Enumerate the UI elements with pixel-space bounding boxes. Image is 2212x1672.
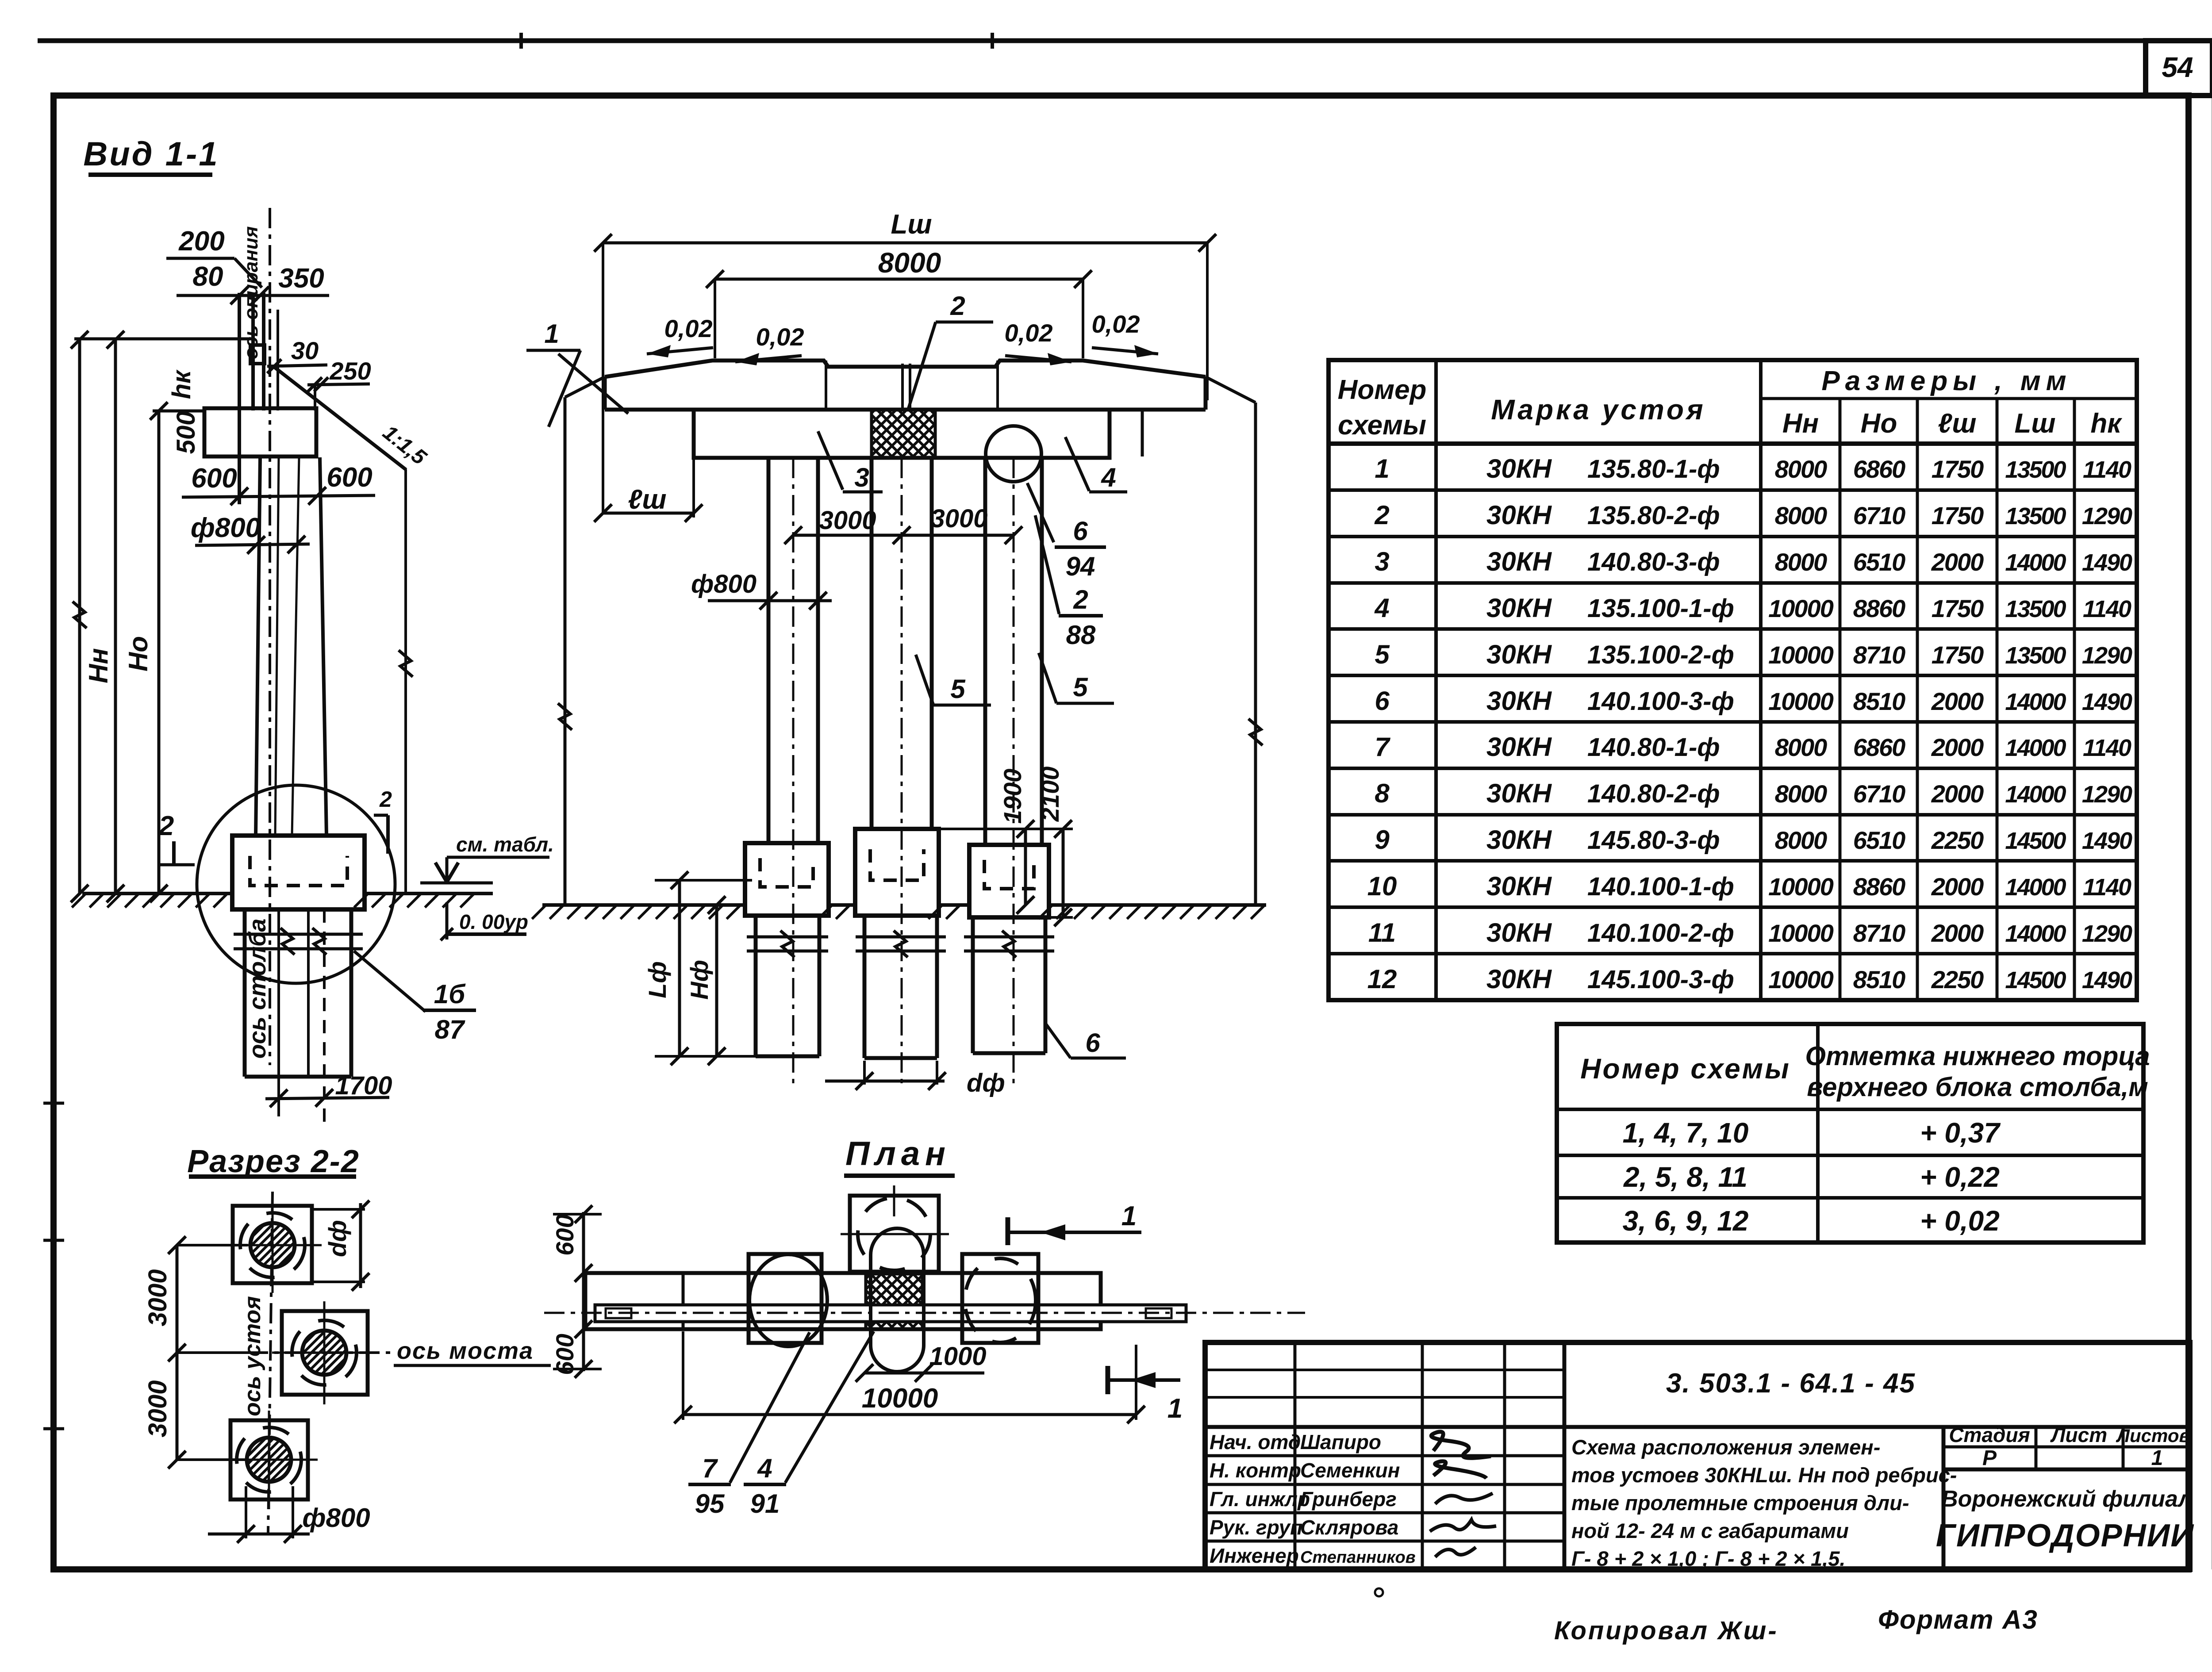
svg-text:2000: 2000: [1931, 873, 1984, 901]
svg-text:140.100-3-ф: 140.100-3-ф: [1587, 687, 1734, 716]
abutment axis (ось устоя): [240, 1192, 273, 1533]
svg-text:10: 10: [1367, 871, 1397, 901]
svg-text:94: 94: [1066, 552, 1095, 581]
svg-text:145.80-3-ф: 145.80-3-ф: [1587, 826, 1720, 855]
svg-text:схемы: схемы: [1338, 410, 1426, 441]
svg-text:600: 600: [551, 1334, 579, 1375]
svg-text:3, 6, 9, 12: 3, 6, 9, 12: [1623, 1205, 1749, 1237]
section mark 1 bottom: [1108, 1366, 1183, 1424]
svg-text:140.80-3-ф: 140.80-3-ф: [1587, 548, 1720, 576]
ground line (view 1-1): [72, 894, 493, 908]
svg-text:1290: 1290: [2082, 920, 2132, 947]
svg-text:30КН: 30КН: [1486, 964, 1552, 994]
svg-text:10000: 10000: [1768, 687, 1834, 715]
svg-text:14000: 14000: [2005, 781, 2066, 808]
svg-text:14500: 14500: [2005, 828, 2066, 854]
svg-text:6860: 6860: [1853, 455, 1905, 483]
shelf slab outline: [605, 360, 1206, 456]
svg-text:1700: 1700: [335, 1071, 392, 1100]
svg-text:2250: 2250: [1931, 966, 1984, 993]
svg-text:7: 7: [702, 1453, 718, 1483]
section mark 2 lower: [374, 787, 392, 854]
svg-text:2, 5, 8, 11: 2, 5, 8, 11: [1623, 1161, 1747, 1193]
piles (elevation): [747, 916, 1054, 1058]
svg-text:80: 80: [193, 261, 223, 292]
detail callout 1b/87: [354, 951, 476, 1044]
svg-text:5: 5: [1073, 672, 1088, 702]
svg-text:4: 4: [757, 1453, 772, 1483]
svg-text:8000: 8000: [1775, 455, 1827, 483]
svg-text:Н. контр: Н. контр: [1210, 1459, 1301, 1482]
svg-text:Гринберг: Гринберг: [1300, 1488, 1397, 1511]
dimension 3000 3000 (elevation): [784, 504, 1022, 544]
svg-text:Нн: Нн: [1782, 408, 1819, 439]
svg-text:8710: 8710: [1853, 641, 1905, 669]
svg-text:8510: 8510: [1853, 966, 1905, 993]
svg-text:6710: 6710: [1853, 502, 1905, 529]
svg-text:600: 600: [191, 463, 237, 494]
svg-text:2: 2: [950, 291, 965, 321]
svg-text:Семенкин: Семенкин: [1300, 1459, 1400, 1482]
svg-text:Гл. инжлр: Гл. инжлр: [1210, 1488, 1310, 1511]
expansion joint crosshatch: [872, 410, 935, 458]
svg-text:Нач. отд: Нач. отд: [1210, 1430, 1301, 1453]
svg-text:8: 8: [1375, 778, 1390, 808]
svg-text:Г- 8 + 2 × 1,0 ; Г- 8 + 2 × 1: Г- 8 + 2 × 1,0 ; Г- 8 + 2 × 1,5.: [1571, 1547, 1845, 1570]
svg-text:2: 2: [1374, 500, 1389, 530]
title block: [1205, 1342, 2194, 1570]
svg-text:14000: 14000: [2005, 735, 2066, 761]
svg-text:Нф: Нф: [685, 960, 713, 1000]
svg-text:ось моста: ось моста: [397, 1338, 534, 1364]
svg-text:10000: 10000: [1768, 641, 1834, 669]
svg-text:Рук. груп: Рук. груп: [1210, 1516, 1302, 1539]
cap block on column: [204, 408, 316, 456]
svg-text:30КН: 30КН: [1486, 500, 1552, 530]
embankment outline right: [1206, 377, 1263, 905]
dimension 600 600 (plan): [551, 1205, 602, 1378]
svg-text:Шапиро: Шапиро: [1300, 1430, 1381, 1453]
dimensions Lf Hf: [643, 871, 761, 1065]
svg-text:8000: 8000: [1775, 826, 1827, 854]
svg-text:30КН: 30КН: [1486, 778, 1552, 808]
svg-text:+ 0,22: + 0,22: [1920, 1161, 2000, 1193]
svg-text:30КН: 30КН: [1486, 686, 1552, 716]
slope labels 0.02: [647, 310, 1158, 365]
foundation blocks: [745, 829, 1049, 917]
svg-text:0,02: 0,02: [1005, 319, 1053, 347]
pile cap A (section 2-2): [223, 1196, 322, 1293]
svg-text:Нн: Нн: [84, 648, 113, 683]
slope line 1:1.5: [274, 367, 431, 470]
svg-text:0,02: 0,02: [756, 323, 804, 351]
svg-text:6710: 6710: [1853, 780, 1905, 808]
svg-text:600: 600: [551, 1214, 579, 1255]
svg-text:2000: 2000: [1931, 733, 1984, 761]
bearing detail circle: [986, 426, 1041, 482]
callout 4: [1065, 437, 1127, 492]
svg-text:8000: 8000: [1775, 548, 1827, 576]
dimension lsh (left): [594, 458, 703, 522]
svg-text:Но: Но: [123, 636, 153, 671]
svg-text:Воронежский филиал: Воронежский филиал: [1941, 1486, 2193, 1512]
pile cap B (section 2-2): [272, 1301, 377, 1404]
svg-text:250: 250: [329, 357, 371, 385]
svg-text:Lш: Lш: [891, 209, 932, 240]
callout 2/88: [1035, 515, 1103, 650]
svg-text:1140: 1140: [2083, 874, 2131, 901]
svg-text:30: 30: [291, 337, 319, 364]
svg-text:1900: 1900: [998, 769, 1026, 824]
svg-text:Р: Р: [1982, 1446, 1997, 1470]
svg-text:200: 200: [178, 226, 224, 257]
dimension 1000 (plan): [856, 1342, 987, 1382]
svg-text:ф800: ф800: [691, 570, 757, 598]
svg-text:14000: 14000: [2005, 549, 2066, 576]
dimension 8000: [706, 247, 1092, 358]
dimensions 80 and 350: [177, 261, 329, 304]
svg-text:1490: 1490: [2082, 828, 2132, 854]
svg-text:План: План: [845, 1135, 951, 1173]
svg-text:верхнего блока столба,м: верхнего блока столба,м: [1807, 1072, 2148, 1102]
pile cap C (section 2-2): [221, 1411, 318, 1509]
svg-text:30КН: 30КН: [1486, 871, 1552, 901]
svg-text:Стадия: Стадия: [1949, 1423, 2030, 1446]
dimension 10000 (plan): [674, 1331, 1145, 1423]
svg-text:ось столба: ось столба: [244, 919, 271, 1059]
svg-text:30КН: 30КН: [1486, 593, 1552, 623]
svg-text:135.80-2-ф: 135.80-2-ф: [1587, 501, 1720, 530]
svg-text:ф800: ф800: [191, 513, 261, 543]
callout 7/95 (plan): [688, 1332, 810, 1519]
svg-text:13500: 13500: [2005, 596, 2066, 622]
svg-text:ГИПРОДОРНИИ: ГИПРОДОРНИИ: [1936, 1518, 2195, 1553]
footer notes: [1375, 1588, 2038, 1645]
svg-text:1490: 1490: [2082, 689, 2132, 715]
svg-text:1290: 1290: [2082, 781, 2132, 808]
svg-text:Отметка нижнего торца: Отметка нижнего торца: [1805, 1041, 2150, 1071]
svg-text:3. 503.1 - 64.1 - 45: 3. 503.1 - 64.1 - 45: [1666, 1368, 1916, 1399]
svg-text:2250: 2250: [1931, 826, 1984, 854]
svg-text:dф: dф: [967, 1069, 1005, 1097]
dimension 3000 3000 (section 2-2): [143, 1236, 248, 1469]
svg-text:14000: 14000: [2005, 874, 2066, 901]
dimensions 1900 2100: [939, 767, 1073, 926]
svg-text:6: 6: [1375, 686, 1390, 716]
dimension 200: [166, 226, 262, 288]
detail circle: [197, 785, 395, 983]
svg-text:30КН: 30КН: [1486, 547, 1552, 576]
svg-text:30КН: 30КН: [1486, 640, 1552, 669]
svg-text:dф: dф: [323, 1220, 351, 1257]
fold marks on left border: [43, 1103, 64, 1429]
plan: long plank strip: [595, 1305, 1186, 1322]
svg-text:8510: 8510: [1853, 687, 1905, 715]
svg-text:3000: 3000: [930, 504, 987, 533]
callout 6/94: [1027, 483, 1106, 581]
embankment outline left: [558, 377, 605, 905]
plan: right square block: [962, 1254, 1038, 1343]
svg-text:Схема расположения элемен-: Схема расположения элемен-: [1571, 1435, 1880, 1459]
svg-text:145.100-3-ф: 145.100-3-ф: [1587, 965, 1734, 994]
callout 2 (joint): [908, 291, 993, 410]
svg-text:0. 00ур: 0. 00ур: [459, 910, 528, 933]
signatures: [1431, 1432, 1491, 1458]
svg-text:5: 5: [950, 674, 966, 704]
svg-text:3000: 3000: [143, 1269, 172, 1326]
note see table: [420, 833, 554, 883]
svg-text:12: 12: [1367, 964, 1397, 994]
svg-text:6510: 6510: [1853, 826, 1905, 854]
svg-text:2100: 2100: [1036, 767, 1064, 822]
callout 4/91 (plan): [744, 1331, 874, 1519]
height dimension lines Hn Ho: [71, 331, 252, 902]
svg-text:135.100-1-ф: 135.100-1-ф: [1587, 594, 1734, 623]
svg-text:4: 4: [1101, 463, 1116, 492]
svg-text:Но: Но: [1861, 408, 1897, 439]
svg-text:8000: 8000: [1775, 733, 1827, 761]
svg-text:8000: 8000: [878, 247, 941, 279]
dimension f800 (elevation): [691, 570, 832, 610]
svg-text:ной 12- 24 м с габаритами: ной 12- 24 м с габаритами: [1571, 1519, 1849, 1542]
plan title: [844, 1135, 955, 1176]
svg-text:5: 5: [1375, 640, 1390, 669]
plan: left square block: [749, 1254, 827, 1346]
bridge axis (ось моста): [248, 1338, 551, 1365]
abutment column shaft: [256, 457, 326, 836]
svg-text:140.100-1-ф: 140.100-1-ф: [1587, 872, 1734, 901]
plan: back square block: [841, 1185, 949, 1272]
svg-text:2000: 2000: [1931, 548, 1984, 576]
plan: shelf wall band: [585, 1273, 1101, 1329]
svg-text:91: 91: [750, 1489, 780, 1519]
right slope dimension line: [399, 469, 413, 894]
svg-text:8860: 8860: [1853, 594, 1905, 622]
svg-text:1490: 1490: [2082, 967, 2132, 993]
svg-text:1750: 1750: [1932, 455, 1984, 483]
ground line (elevation): [532, 905, 1267, 919]
dimension 600 600: [182, 462, 375, 505]
svg-text:Марка устоя: Марка устоя: [1491, 394, 1705, 426]
svg-text:1б: 1б: [434, 979, 466, 1009]
svg-text:1750: 1750: [1932, 502, 1984, 529]
svg-text:Степанников: Степанников: [1300, 1548, 1416, 1567]
svg-text:ось устоя: ось устоя: [240, 1296, 265, 1416]
svg-text:1: 1: [1121, 1201, 1137, 1231]
svg-text:8710: 8710: [1853, 919, 1905, 947]
svg-text:3000: 3000: [143, 1380, 172, 1437]
svg-text:Разрез 2-2: Разрез 2-2: [187, 1144, 360, 1179]
svg-text:2000: 2000: [1931, 780, 1984, 808]
svg-text:8860: 8860: [1853, 873, 1905, 901]
svg-text:см. табл.: см. табл.: [456, 833, 554, 856]
svg-text:6860: 6860: [1853, 733, 1905, 761]
svg-text:10000: 10000: [862, 1383, 938, 1414]
svg-text:2: 2: [1073, 585, 1088, 614]
table: abutment marks and sizes: [1329, 360, 2137, 1000]
svg-text:тов устоев 30КНLш. Нн под ребр: тов устоев 30КНLш. Нн под ребрис-: [1571, 1463, 1957, 1487]
level mark 0.00: [441, 902, 528, 940]
svg-text:1750: 1750: [1932, 641, 1984, 669]
svg-text:Листов: Листов: [2116, 1425, 2190, 1446]
page top rule: [38, 38, 2212, 43]
svg-text:54: 54: [2162, 51, 2193, 83]
svg-text:1290: 1290: [2082, 503, 2132, 529]
svg-text:Номер: Номер: [1338, 375, 1427, 405]
callouts 5: [916, 653, 1114, 705]
svg-text:Размеры , мм: Размеры , мм: [1821, 366, 2071, 396]
svg-text:0,02: 0,02: [664, 314, 713, 342]
svg-text:6510: 6510: [1853, 548, 1905, 576]
svg-text:10000: 10000: [1768, 873, 1834, 901]
svg-text:2000: 2000: [1931, 687, 1984, 715]
svg-text:95: 95: [695, 1489, 725, 1519]
svg-text:8000: 8000: [1775, 502, 1827, 529]
svg-text:7: 7: [1375, 732, 1390, 762]
svg-text:8000: 8000: [1775, 780, 1827, 808]
dimension f800 (section 2-2): [208, 1486, 370, 1543]
svg-text:1140: 1140: [2083, 735, 2131, 761]
sheet number box 54: [2146, 41, 2212, 96]
dimension df (elevation): [825, 1061, 1005, 1097]
dimension 1700: [265, 1071, 392, 1107]
svg-text:ф800: ф800: [302, 1503, 370, 1533]
svg-text:+ 0,37: + 0,37: [1920, 1117, 2001, 1149]
svg-text:тые пролетные строения дли-: тые пролетные строения дли-: [1571, 1491, 1909, 1515]
svg-text:350: 350: [278, 263, 324, 294]
svg-text:30КН: 30КН: [1486, 918, 1552, 947]
svg-text:30КН: 30КН: [1486, 732, 1552, 762]
svg-text:135.80-1-ф: 135.80-1-ф: [1587, 455, 1720, 483]
pile below foundation (view 1-1): [234, 909, 363, 1122]
svg-text:1750: 1750: [1932, 594, 1984, 622]
svg-text:2: 2: [158, 811, 174, 841]
svg-text:10000: 10000: [1768, 919, 1834, 947]
plan: center oval column: [871, 1228, 924, 1372]
columns: [768, 458, 1042, 1088]
table: bottom end elevation of upper column block: [1557, 1024, 2150, 1242]
plan: bridge axis line: [544, 1312, 1305, 1314]
svg-text:ℓш: ℓш: [1938, 408, 1976, 439]
svg-text:1490: 1490: [2082, 549, 2132, 576]
dimension f800 column: [191, 513, 310, 554]
plan: center joint crosshatch: [866, 1274, 922, 1329]
svg-text:9: 9: [1375, 825, 1390, 855]
bearing axis (ось опирания): [240, 208, 270, 1065]
svg-text:1290: 1290: [2082, 642, 2132, 669]
svg-text:Склярова: Склярова: [1300, 1516, 1398, 1539]
svg-text:0,02: 0,02: [1092, 310, 1140, 338]
svg-text:14000: 14000: [2005, 689, 2066, 715]
svg-text:6: 6: [1085, 1028, 1100, 1058]
svg-text:88: 88: [1066, 620, 1096, 650]
svg-text:Инженер: Инженер: [1210, 1544, 1299, 1567]
svg-text:3: 3: [1375, 547, 1389, 576]
shelf wall upper block: [239, 293, 278, 504]
svg-text:13500: 13500: [2005, 456, 2066, 483]
svg-text:14000: 14000: [2005, 920, 2066, 947]
svg-text:Lш: Lш: [2015, 408, 2056, 439]
svg-text:10000: 10000: [1768, 594, 1834, 622]
svg-text:135.100-2-ф: 135.100-2-ф: [1587, 640, 1734, 669]
section mark 2 upper: [158, 811, 195, 865]
view 1-1 title: [83, 135, 219, 175]
section 2-2 title: [187, 1144, 360, 1179]
svg-text:500: 500: [172, 411, 200, 454]
svg-text:3: 3: [854, 463, 869, 492]
svg-text:Lф: Lф: [643, 961, 671, 998]
svg-text:Копировал Жш-: Копировал Жш-: [1554, 1616, 1778, 1645]
section mark 1 top: [1008, 1201, 1141, 1245]
callout 3: [818, 431, 883, 492]
svg-text:1: 1: [1375, 454, 1389, 483]
svg-text:13500: 13500: [2005, 503, 2066, 529]
svg-text:140.80-2-ф: 140.80-2-ф: [1587, 779, 1720, 808]
svg-text:+ 0,02: + 0,02: [1920, 1205, 2000, 1237]
svg-text:1: 1: [1167, 1393, 1183, 1424]
svg-text:1140: 1140: [2083, 456, 2131, 483]
svg-text:hк: hк: [167, 369, 196, 399]
svg-text:14500: 14500: [2005, 967, 2066, 993]
dimension 30: [267, 337, 327, 373]
svg-text:ℓш: ℓш: [628, 484, 666, 515]
foundation block (view 1-1): [232, 836, 365, 909]
callout 6 (pile): [1045, 1023, 1126, 1058]
svg-text:Лист: Лист: [2050, 1423, 2107, 1446]
svg-text:1: 1: [2151, 1446, 2163, 1470]
svg-text:2: 2: [379, 787, 392, 812]
svg-text:11: 11: [1368, 918, 1396, 947]
svg-text:2000: 2000: [1931, 919, 1984, 947]
svg-text:600: 600: [326, 462, 372, 493]
svg-text:Вид 1-1: Вид 1-1: [83, 135, 219, 173]
svg-text:13500: 13500: [2005, 642, 2066, 669]
callout 1: [526, 319, 628, 427]
svg-text:3000: 3000: [819, 506, 876, 535]
svg-text:1: 1: [544, 319, 559, 349]
svg-text:Формат А3: Формат А3: [1878, 1605, 2038, 1634]
pier cap: [694, 410, 1110, 458]
dimension Lsh (top): [594, 209, 1216, 513]
dimension 250: [307, 357, 371, 410]
svg-text:140.100-2-ф: 140.100-2-ф: [1587, 919, 1734, 947]
svg-text:87: 87: [435, 1015, 465, 1044]
svg-text:1, 4, 7, 10: 1, 4, 7, 10: [1623, 1117, 1749, 1149]
svg-text:6: 6: [1073, 516, 1088, 546]
svg-text:hк: hк: [2090, 408, 2122, 439]
svg-text:10000: 10000: [1768, 966, 1834, 993]
dimension df (section 2-2): [313, 1200, 369, 1291]
svg-text:140.80-1-ф: 140.80-1-ф: [1587, 733, 1720, 762]
svg-text:1140: 1140: [2083, 596, 2131, 622]
svg-text:30КН: 30КН: [1486, 825, 1552, 855]
svg-text:30КН: 30КН: [1486, 454, 1552, 483]
svg-text:Номер схемы: Номер схемы: [1580, 1053, 1790, 1085]
svg-text:1000: 1000: [929, 1342, 986, 1371]
svg-text:4: 4: [1374, 593, 1389, 623]
